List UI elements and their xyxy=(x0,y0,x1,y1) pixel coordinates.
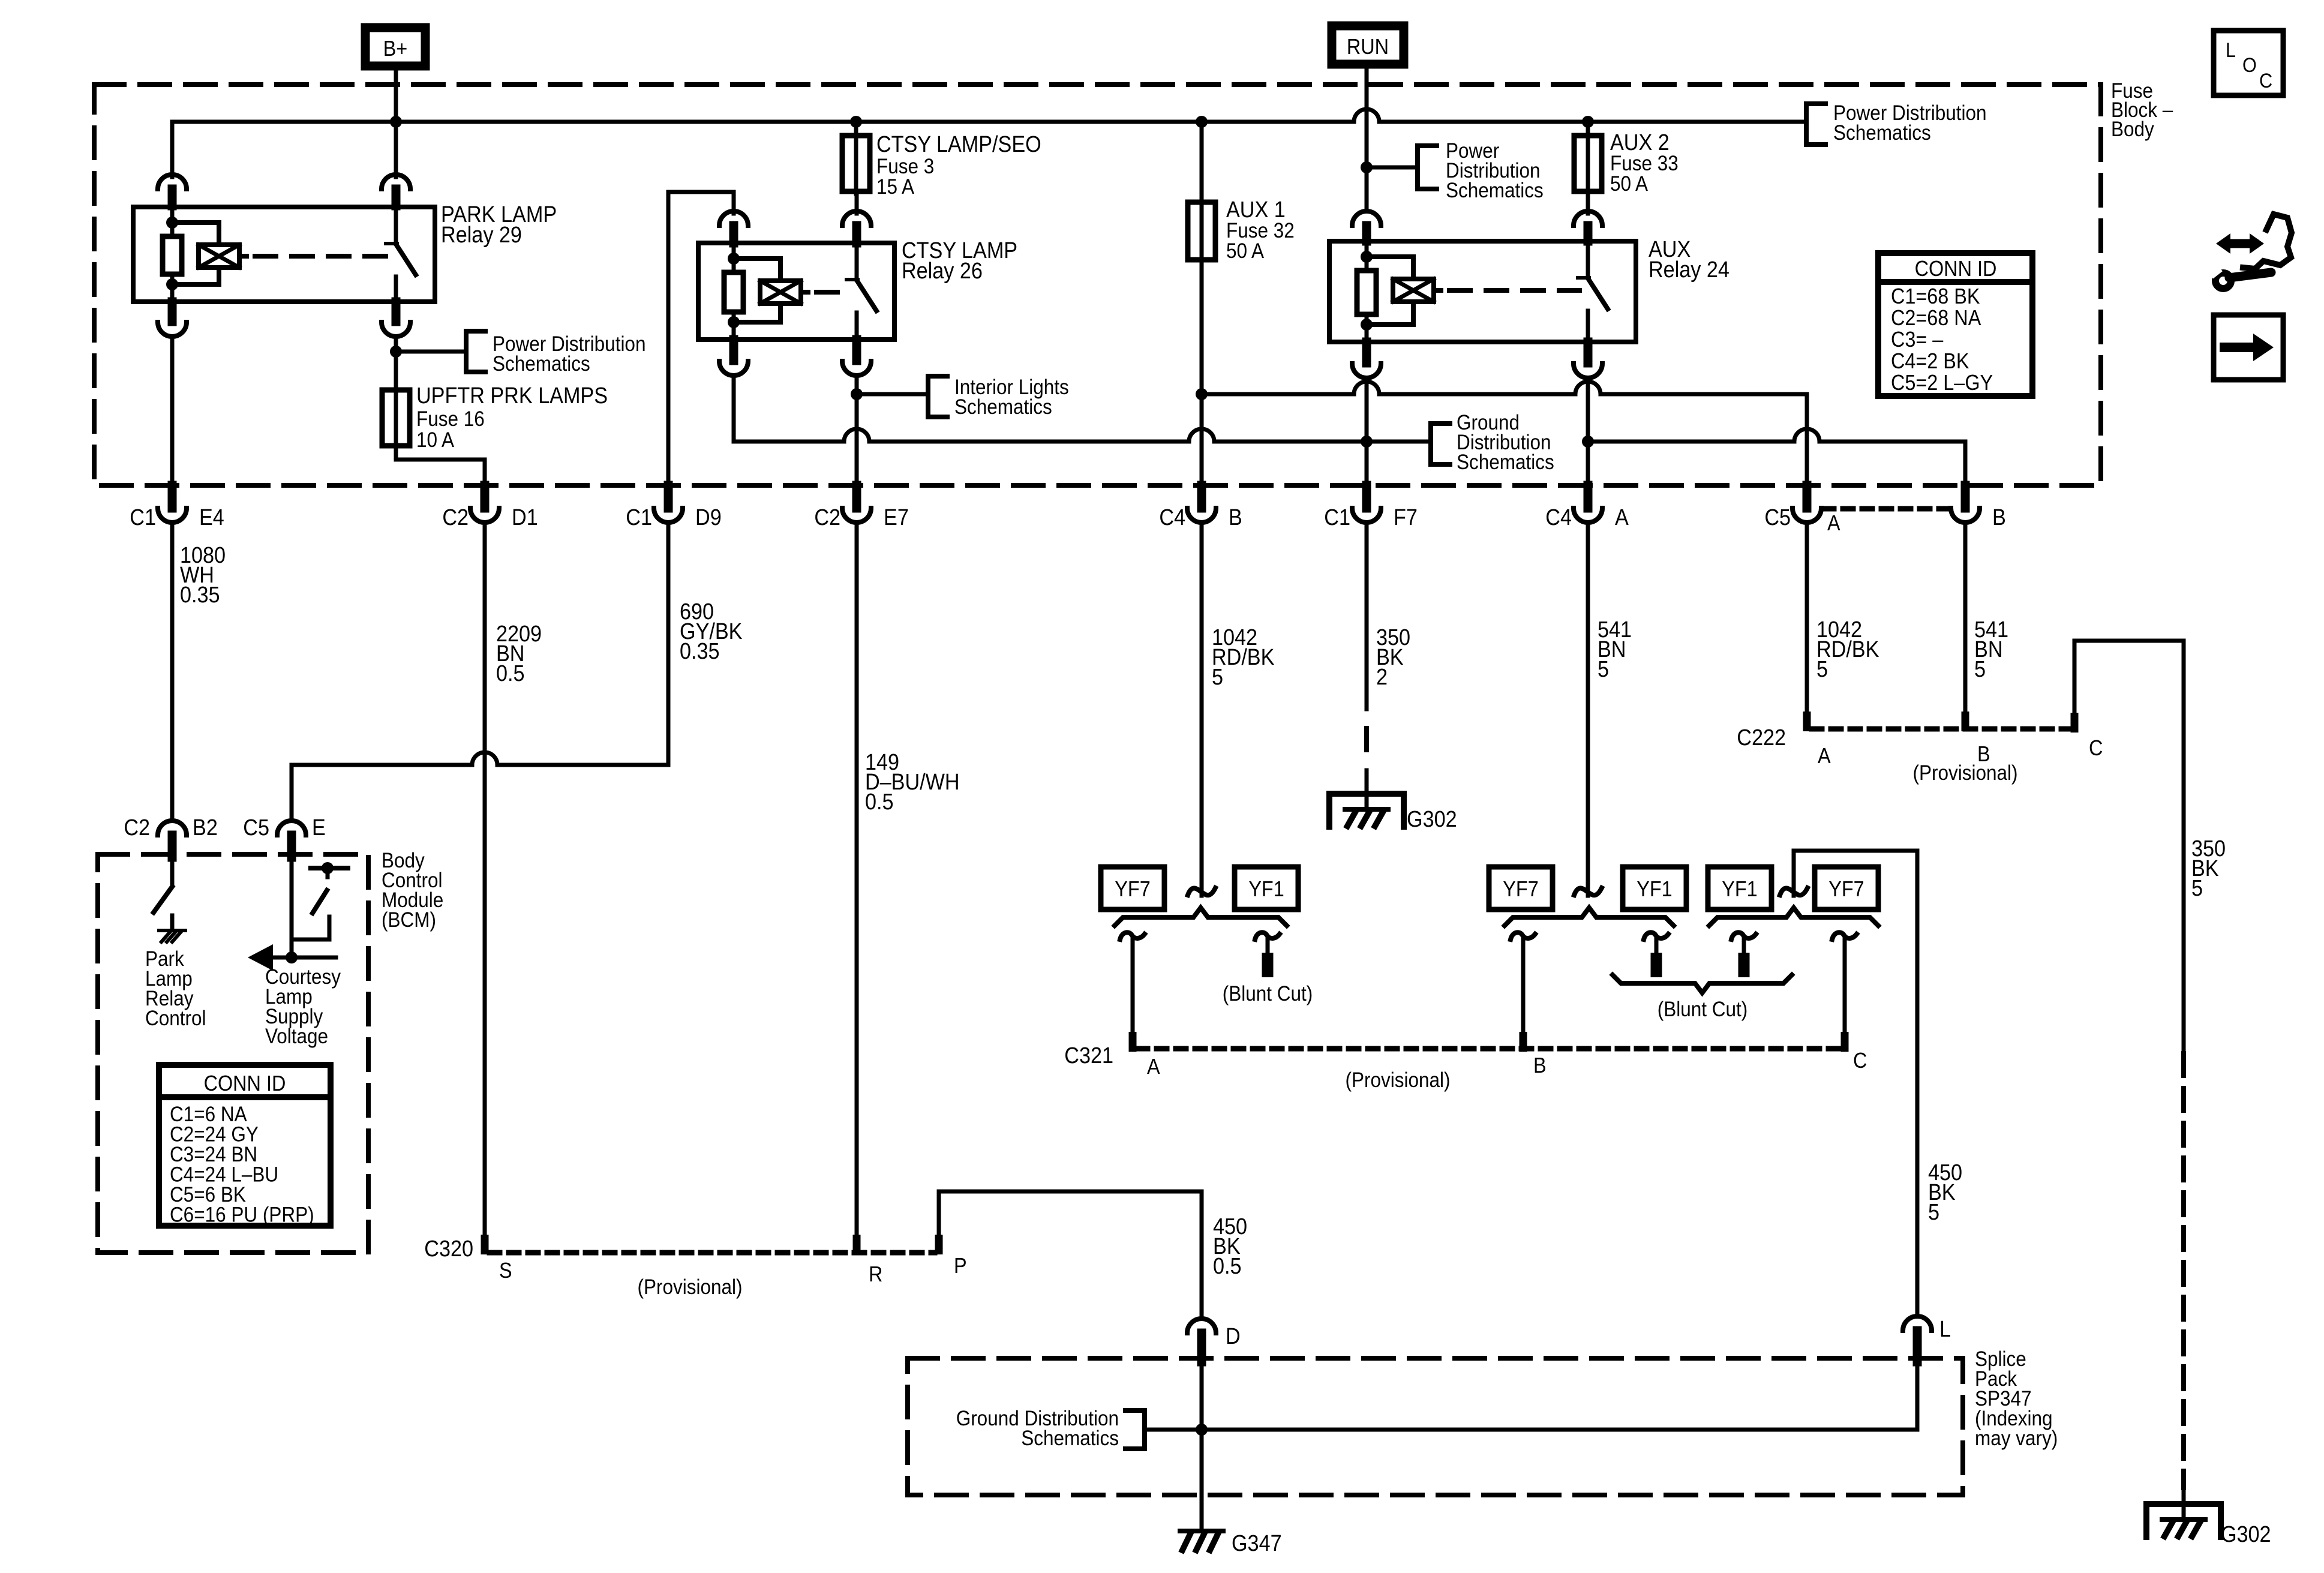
switch: park lamp relay control driver xyxy=(154,857,172,929)
hop: over E7 wire xyxy=(844,429,869,442)
wire: aux switch low to A xyxy=(1586,378,1590,487)
harness box YF7 (group 3) xyxy=(1815,867,1878,909)
label: 350 BK 5 xyxy=(2191,835,2226,900)
provisional dashed line C222 xyxy=(1812,727,2071,732)
svg-text:YF7: YF7 xyxy=(1828,877,1864,901)
connector C1 pin F7 xyxy=(1324,485,1418,530)
CONN ID table (fuse block) xyxy=(1878,253,2032,396)
harness box YF7 (group 1) xyxy=(1101,867,1164,909)
connector pin: aux relay coil top xyxy=(1352,211,1381,241)
svg-text:F7: F7 xyxy=(1394,504,1418,530)
blunt cut stub (group 3) xyxy=(1731,932,1756,977)
hop: over C5-A wire xyxy=(1794,429,1819,442)
terminal C222 pin C xyxy=(2071,713,2079,733)
ground G302 (center) xyxy=(1329,794,1404,827)
svg-text:C4: C4 xyxy=(1545,504,1572,530)
provisional dashed line C321 xyxy=(1137,1046,1841,1052)
terminal C222 pin A xyxy=(1803,712,1811,731)
wire: courtesy lamp supply voltage xyxy=(290,857,294,957)
relay K29 PARK LAMP Relay 29 xyxy=(133,207,435,302)
terminal C321 pin C xyxy=(1841,1032,1849,1052)
hop: over A wire xyxy=(1575,382,1601,394)
svg-text:C1: C1 xyxy=(1324,504,1350,530)
label: 2209 BN 0.5 xyxy=(496,620,542,686)
callout: Power Distribution Schematics (bus right end) xyxy=(1806,102,1987,145)
svg-text:C1: C1 xyxy=(626,504,652,530)
svg-text:C3= –: C3= – xyxy=(1891,328,1944,352)
dashed continuation of 350 BK 5 xyxy=(2181,1053,2186,1488)
svg-text:15 A: 15 A xyxy=(876,176,915,199)
ground G347 xyxy=(1180,1531,1223,1550)
wire 690 GY/BK 0.35 (D9 to BCM E) xyxy=(292,523,668,821)
svg-text:B: B xyxy=(1533,1053,1547,1077)
label: AUX Relay 24 xyxy=(1649,236,1730,282)
svg-text:C2: C2 xyxy=(442,504,469,530)
hop: over F7 wire xyxy=(1354,382,1379,394)
terminal C222 pin B xyxy=(1962,712,1969,731)
svg-text:0.35: 0.35 xyxy=(180,581,220,607)
svg-text:(Provisional): (Provisional) xyxy=(638,1276,743,1299)
svg-text:A: A xyxy=(1818,744,1831,768)
callout: Interior Lights Schematics xyxy=(928,376,1069,419)
svg-text:Voltage: Voltage xyxy=(265,1025,328,1049)
wire: bus drop to fuse 32 xyxy=(1200,122,1204,202)
label: 1080 WH 0.35 xyxy=(180,542,226,607)
svg-text:B2: B2 xyxy=(193,814,218,840)
node: fuse 3 at bus xyxy=(850,116,862,128)
wire: tap to interior lights callout xyxy=(857,392,928,397)
connector pin C5 E (BCM) xyxy=(243,814,326,857)
node: fuse 33 at bus xyxy=(1582,116,1594,128)
wire: tap to callout xyxy=(396,350,466,354)
svg-text:C1=68 BK: C1=68 BK xyxy=(1891,284,1980,308)
svg-text:C5: C5 xyxy=(243,814,269,840)
node: ground distribution at A wire xyxy=(1582,436,1594,448)
connector C1 pin D9 xyxy=(626,485,721,530)
svg-text:5: 5 xyxy=(1212,664,1223,689)
svg-text:0.5: 0.5 xyxy=(1213,1253,1242,1278)
brace (group 1) xyxy=(1115,908,1287,926)
connector C4 pin B xyxy=(1159,485,1242,530)
ground G302 (bottom right) xyxy=(2146,1504,2221,1537)
label: 541 BN 5 (right) xyxy=(1974,616,2008,682)
hop: 690 wire over 2209 wire xyxy=(472,752,497,765)
label: PARK LAMP Relay 29 xyxy=(441,201,557,247)
svg-text:Schematics: Schematics xyxy=(493,353,590,376)
svg-text:0.35: 0.35 xyxy=(680,638,720,664)
connector pin: aux relay switch bottom xyxy=(1574,342,1602,378)
wire 450 BK 0.5 (P to SP347 D) xyxy=(939,1191,1202,1319)
connector pin C2 B2 (BCM) xyxy=(124,814,218,857)
svg-text:CONN ID: CONN ID xyxy=(204,1071,286,1095)
label: 690 GY/BK 0.35 xyxy=(680,598,742,664)
connector pin: ctsy relay coil bottom xyxy=(719,340,748,376)
svg-text:A: A xyxy=(1827,511,1840,535)
svg-text:YF1: YF1 xyxy=(1637,877,1672,901)
label: Body Control Module (BCM) xyxy=(382,849,443,932)
harness box YF7 (group 2) xyxy=(1489,867,1553,909)
label: 149 D-BU/WH 0.5 xyxy=(865,749,960,814)
wire: ground distribution run right to B drop xyxy=(1588,442,1965,487)
svg-text:5: 5 xyxy=(1598,656,1609,682)
svg-text:YF7: YF7 xyxy=(1503,877,1538,901)
label: Splice Pack SP347 (Indexing may vary) xyxy=(1975,1348,2058,1451)
ground symbol (BCM internal) xyxy=(159,930,185,942)
fuse F3 CTSY LAMP/SEO xyxy=(842,133,870,194)
svg-text:L: L xyxy=(2226,39,2236,62)
CONN ID table (BCM) xyxy=(159,1065,331,1227)
svg-text:(Blunt Cut): (Blunt Cut) xyxy=(1658,998,1747,1022)
wire: fuse 3 to ctsy relay switch pin xyxy=(855,191,859,214)
callout: Power Distribution Schematics (relay 29) xyxy=(466,331,645,376)
wire: group 3 riser to SP347 L xyxy=(1794,851,1917,1316)
node: ground distribution at F7 wire xyxy=(1361,436,1373,448)
svg-text:5: 5 xyxy=(2191,875,2203,900)
svg-text:C2=68 NA: C2=68 NA xyxy=(1891,306,1981,330)
svg-text:O: O xyxy=(2242,54,2257,77)
label: 450 BK 5 xyxy=(1928,1159,1962,1224)
label: AUX 2 Fuse 33 50 A xyxy=(1610,129,1679,196)
wire: main B+ bus xyxy=(172,120,1806,124)
svg-text:S: S xyxy=(499,1259,512,1283)
wire: fuse 33 to aux switch pin xyxy=(1586,191,1590,214)
label: UPFTR PRK LAMPS Fuse 16 10 A xyxy=(416,382,608,452)
svg-text:Fuse 16: Fuse 16 xyxy=(416,408,485,431)
wire: bus drop to fuse 3 xyxy=(854,122,858,136)
hop: bus over RUN wire xyxy=(1354,109,1379,122)
terminal C321 pin A xyxy=(1129,1032,1137,1052)
fuse F32 AUX 1 xyxy=(1188,200,1215,262)
LOC reference box icon xyxy=(2214,31,2283,95)
svg-text:C2: C2 xyxy=(814,504,840,530)
svg-text:YF1: YF1 xyxy=(1722,877,1757,901)
svg-text:C5=2 L–GY: C5=2 L–GY xyxy=(1891,371,1993,395)
svg-text:A: A xyxy=(1615,504,1629,530)
svg-text:E7: E7 xyxy=(884,504,909,530)
fuse F33 AUX 2 xyxy=(1574,133,1602,194)
svg-text:R: R xyxy=(869,1262,882,1286)
wire 1080 WH 0.35 (E4 to B2) xyxy=(170,523,175,821)
connector pin: ctsy relay switch top xyxy=(842,211,871,243)
svg-text:5: 5 xyxy=(1816,656,1828,682)
B+ power terminal box xyxy=(365,28,425,66)
wire 149 D-BU/WH 0.5 (E7 to C320 R) xyxy=(855,523,859,1235)
label: Park Lamp Relay Control xyxy=(145,948,206,1031)
hop: over B wire xyxy=(1189,429,1214,442)
arrow: courtesy lamp output xyxy=(248,944,336,971)
wire: RUN feed down to aux relay coil xyxy=(1365,68,1369,211)
wire: splice bus D to L xyxy=(1145,1362,1917,1531)
svg-text:A: A xyxy=(1147,1055,1160,1079)
svg-text:(Provisional): (Provisional) xyxy=(1913,762,2018,785)
brace (group 3) xyxy=(1709,908,1878,926)
svg-text:YF1: YF1 xyxy=(1248,877,1284,901)
Splice Pack dashed boundary xyxy=(908,1358,1963,1495)
node: fuse 32 at bus xyxy=(1196,116,1208,128)
svg-text:may vary): may vary) xyxy=(1975,1427,2058,1451)
svg-text:P: P xyxy=(954,1254,967,1278)
wire 1042 RD/BK 5 (C5 A to C222 A) xyxy=(1805,523,1809,712)
connector pin: park relay switch bottom xyxy=(382,302,410,337)
relay K26 CTSY LAMP Relay 26 xyxy=(698,243,894,340)
fuse F16 UPFTR PRK LAMPS xyxy=(382,388,410,448)
svg-text:Schematics: Schematics xyxy=(1833,122,1931,145)
svg-text:50 A: 50 A xyxy=(1610,173,1649,196)
svg-text:D9: D9 xyxy=(695,504,722,530)
connector C5 pin B xyxy=(1951,485,2006,530)
terminal C320 pin R xyxy=(853,1235,861,1254)
wire 541 BN 5 (A to YF splice) xyxy=(1586,523,1590,896)
svg-text:Relay 29: Relay 29 xyxy=(441,221,522,247)
terminal C320 pin S xyxy=(481,1235,489,1254)
RUN power terminal box xyxy=(1332,26,1404,64)
svg-text:(BCM): (BCM) xyxy=(382,909,436,932)
terminal C321 pin B xyxy=(1520,1032,1527,1052)
svg-text:5: 5 xyxy=(1974,656,1986,682)
callout: Ground Distribution Schematics (SP347) xyxy=(956,1407,1145,1451)
svg-text:D1: D1 xyxy=(512,504,538,530)
svg-text:Schematics: Schematics xyxy=(1446,179,1544,203)
provisional dashed link C5 A to B xyxy=(1824,506,1948,512)
pigtail hook to C321 C xyxy=(1832,932,1857,1032)
connector pin: aux relay coil bottom xyxy=(1352,342,1381,378)
node: run power distribution tap xyxy=(1361,161,1373,173)
connector pin L (SP347) xyxy=(1903,1316,1951,1362)
connector C1 pin E4 xyxy=(130,485,224,530)
Fuse Block - Body dashed boundary xyxy=(94,85,2101,485)
terminal C320 pin P xyxy=(935,1235,943,1254)
svg-text:C: C xyxy=(2259,70,2272,92)
connector pin: ctsy relay switch bottom xyxy=(842,340,871,376)
brace under blunt cuts (groups 2-3) xyxy=(1613,975,1792,993)
svg-text:E4: E4 xyxy=(199,504,224,530)
svg-text:C320: C320 xyxy=(424,1235,473,1261)
svg-text:10 A: 10 A xyxy=(416,429,455,452)
blunt cut stub (group 1) xyxy=(1255,932,1280,977)
label: 1042 RD/BK 5 xyxy=(1212,624,1274,689)
svg-text:C2: C2 xyxy=(124,814,150,840)
wire: ctsy switch low to E7 xyxy=(855,376,859,487)
callout: Ground Distribution Schematics (fuse block) xyxy=(1431,412,1554,475)
wire: park relay switch to fuse 16 xyxy=(394,337,398,390)
node: B+ at bus xyxy=(390,116,402,128)
connector pin: park relay coil bottom xyxy=(158,302,187,337)
svg-text:L: L xyxy=(1939,1316,1951,1341)
wire: bus drop to fuse 33 xyxy=(1586,122,1590,136)
svg-text:C222: C222 xyxy=(1737,724,1786,750)
connector pin: park relay switch top xyxy=(382,175,410,206)
wire: tap to callout xyxy=(1367,166,1418,170)
harness box YF1 (group 3) xyxy=(1708,867,1771,909)
svg-text:Relay 26: Relay 26 xyxy=(902,257,983,283)
BCM dashed boundary xyxy=(98,854,368,1253)
svg-text:UPFTR PRK LAMPS: UPFTR PRK LAMPS xyxy=(416,382,608,408)
callout: Power Distribution Schematics (RUN) xyxy=(1418,140,1544,203)
svg-text:G302: G302 xyxy=(2221,1521,2271,1547)
label: CTSY LAMP Relay 26 xyxy=(902,237,1017,283)
connector C2 pin E7 xyxy=(814,485,909,530)
wire: ground distribution run left xyxy=(734,440,1431,444)
wire: D9 riser over to ctsy relay coil xyxy=(668,192,734,487)
harness break squiggle (group 2) xyxy=(1574,888,1602,895)
connector C4 pin A xyxy=(1545,485,1629,530)
label: 1042 RD/BK 5 (right) xyxy=(1816,616,1879,682)
svg-text:AUX 2: AUX 2 xyxy=(1610,129,1670,155)
svg-text:0.5: 0.5 xyxy=(865,788,894,814)
wire: fuse 16 jog to D1 xyxy=(396,446,485,487)
connector pin: park relay coil top xyxy=(158,175,187,206)
svg-text:0.5: 0.5 xyxy=(496,660,525,686)
svg-text:E: E xyxy=(312,814,326,840)
svg-text:C4: C4 xyxy=(1159,504,1185,530)
svg-text:Body: Body xyxy=(2111,118,2154,142)
pigtail hook to C321 B xyxy=(1511,932,1535,1032)
svg-text:5: 5 xyxy=(1928,1199,1939,1224)
node: power distribution tap xyxy=(390,346,402,358)
harness break squiggle (group 1) xyxy=(1188,888,1215,895)
svg-text:AUX 1: AUX 1 xyxy=(1226,196,1286,222)
wire 1042 RD/BK 5 (B to YF splice) xyxy=(1200,523,1204,896)
harness box YF1 (group 2) xyxy=(1623,867,1686,909)
svg-text:RUN: RUN xyxy=(1347,35,1389,59)
svg-text:(Blunt Cut): (Blunt Cut) xyxy=(1223,983,1313,1006)
connector C5 pin A xyxy=(1764,485,1840,535)
svg-text:B+: B+ xyxy=(383,37,408,61)
wire: ctsy coil low to ground distribution run xyxy=(732,376,736,442)
svg-text:Schematics: Schematics xyxy=(954,396,1052,419)
wire 350 BK 5 from C222 C to right riser xyxy=(2074,641,2184,1050)
provisional dashed line C320 xyxy=(490,1250,935,1256)
relay K24 AUX Relay 24 xyxy=(1329,241,1636,342)
svg-text:C: C xyxy=(1853,1049,1867,1073)
svg-text:YF7: YF7 xyxy=(1115,877,1150,901)
svg-text:C5: C5 xyxy=(1764,504,1791,530)
wire 2209 BN 0.5 (D1 to C320 S) xyxy=(483,523,487,1235)
svg-text:C6=16 PU (PRP): C6=16 PU (PRP) xyxy=(170,1203,314,1227)
svg-text:50 A: 50 A xyxy=(1226,240,1265,263)
connector pin: aux relay switch top xyxy=(1574,211,1602,241)
wire 541 BN 5 (C5 B to C222 B) xyxy=(1963,523,1968,712)
harness break squiggle (group 3) xyxy=(1780,888,1807,895)
svg-text:D: D xyxy=(1226,1323,1241,1349)
label: CTSY LAMP/SEO Fuse 3 15 A xyxy=(876,131,1041,199)
svg-text:C4=2 BK: C4=2 BK xyxy=(1891,349,1969,373)
wire: park relay coil low side down to E4 xyxy=(170,337,175,487)
boxed right-arrow icon xyxy=(2214,315,2283,380)
svg-text:G302: G302 xyxy=(1407,806,1457,831)
svg-text:C321: C321 xyxy=(1064,1042,1113,1068)
connector C2 pin D1 xyxy=(442,485,538,530)
svg-text:C: C xyxy=(2089,736,2103,760)
svg-text:2: 2 xyxy=(1376,664,1388,689)
connector pin D (SP347) xyxy=(1187,1319,1241,1362)
pigtail hook to C321 A xyxy=(1120,932,1145,1032)
connector pin: ctsy relay coil top xyxy=(719,211,748,243)
wire: interior lights run to C5-A drop xyxy=(1202,394,1807,487)
wrench and arrow service icon xyxy=(2207,214,2292,289)
svg-text:CTSY LAMP/SEO: CTSY LAMP/SEO xyxy=(876,131,1041,157)
svg-text:G347: G347 xyxy=(1232,1530,1282,1556)
label: 541 BN 5 (left) xyxy=(1598,616,1632,682)
svg-text:B: B xyxy=(1992,504,2006,530)
svg-text:C1: C1 xyxy=(130,504,156,530)
svg-text:Relay 24: Relay 24 xyxy=(1649,256,1730,282)
label: Courtesy Lamp Supply Voltage xyxy=(265,966,341,1049)
wire: fuse 32 down to connector B xyxy=(1200,260,1204,487)
wire: B+ feed into fuse block xyxy=(394,66,398,122)
wire: aux coil low to F7 xyxy=(1365,378,1369,487)
harness box YF1 (group 1) xyxy=(1235,867,1298,909)
node: interior lights at B wire xyxy=(1196,388,1208,400)
svg-text:Control: Control xyxy=(145,1007,206,1031)
node: splice at D wire xyxy=(1196,1424,1208,1436)
svg-text:Schematics: Schematics xyxy=(1457,451,1554,475)
switch: courtesy lamp supply (BCM internal) xyxy=(292,862,348,939)
svg-text:(Provisional): (Provisional) xyxy=(1346,1069,1451,1092)
wire 350 BK 2 (F7 to G302) xyxy=(1365,523,1369,809)
label: AUX 1 Fuse 32 50 A xyxy=(1226,196,1295,263)
node: interior lights tap at E7 wire xyxy=(851,388,863,400)
blunt cut stub (group 2) xyxy=(1644,932,1668,977)
svg-text:B: B xyxy=(1229,504,1242,530)
svg-text:Schematics: Schematics xyxy=(1021,1427,1119,1451)
wire: B+ drop to park lamp relay switch xyxy=(394,122,398,177)
Fuse Block - Body label xyxy=(2111,80,2173,142)
wire: bus drop to park lamp relay coil xyxy=(170,122,175,177)
label: 350 BK 2 xyxy=(1376,624,1410,689)
label: 450 BK 0.5 xyxy=(1213,1213,1247,1278)
svg-text:CONN ID: CONN ID xyxy=(1915,257,1997,281)
brace (group 2) xyxy=(1505,908,1674,926)
